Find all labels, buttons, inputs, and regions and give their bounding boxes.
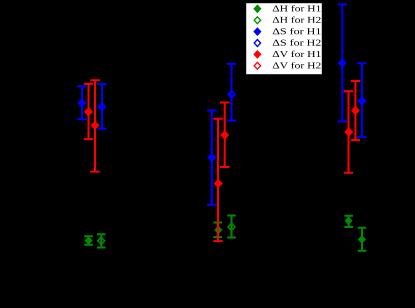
error bar ΔH H2 group2 bbox=[227, 216, 236, 238]
point ΔH H1 group1 bbox=[85, 236, 93, 245]
legend label ΔS for H2 bbox=[273, 39, 321, 45]
error bar ΔV H2 group2 bbox=[213, 119, 222, 241]
error bar ΔS H2 group2 bbox=[227, 64, 236, 121]
error bar ΔH H1 group1 bbox=[84, 236, 93, 244]
point ΔS H2 group1 bbox=[97, 102, 106, 111]
legend label ΔV for H1 bbox=[273, 51, 321, 57]
error bar ΔV H1 group3 bbox=[344, 91, 353, 173]
point ΔH H2 group2 (open) bbox=[228, 223, 235, 230]
error bar ΔH H2 group3 bbox=[358, 228, 367, 251]
point ΔS H1 group3 bbox=[338, 58, 347, 67]
error bar ΔS H1 group1 bbox=[77, 86, 86, 119]
point ΔH H2 group1 (open) bbox=[98, 237, 105, 244]
legend marker ΔV for H2 bbox=[254, 62, 260, 69]
error bar ΔV H1 group2 bbox=[220, 103, 229, 168]
legend marker ΔV for H1 bbox=[253, 50, 261, 59]
point ΔS H1 group1 bbox=[78, 98, 87, 107]
legend marker ΔS for H2 bbox=[254, 40, 260, 47]
point ΔS H2 group2 (open) bbox=[227, 90, 236, 99]
legend label ΔH for H2 bbox=[273, 16, 321, 22]
error bar ΔV H2 group3 bbox=[351, 81, 360, 140]
error bar ΔS H2 group3 bbox=[357, 63, 366, 137]
hole in open diamond ΔS H2 group2 bbox=[232, 94, 234, 96]
point ΔV H2 group3 bbox=[351, 106, 360, 115]
point ΔV H1 group2 bbox=[220, 130, 229, 139]
legend marker ΔH for H2 bbox=[254, 17, 260, 24]
legend marker ΔS for H1 bbox=[253, 27, 261, 36]
error bar ΔS H1 group2 bbox=[207, 111, 216, 205]
error bar ΔH H1 group2 bbox=[213, 223, 222, 238]
point ΔS H1 group2 bbox=[207, 153, 216, 162]
error bar ΔH H2 group1 bbox=[97, 234, 106, 247]
point ΔS H2 group3 bbox=[357, 96, 366, 105]
legend label ΔH for H1 bbox=[273, 5, 321, 11]
point ΔH H2 group3 bbox=[358, 235, 366, 244]
legend box bbox=[246, 3, 322, 74]
error bar ΔV H1 group1 bbox=[84, 84, 93, 139]
error bar ΔS H1 group3 bbox=[338, 4, 347, 121]
point ΔV H2 group2 bbox=[214, 179, 223, 188]
legend label ΔS for H1 bbox=[273, 28, 321, 34]
point ΔV H2 group1 bbox=[91, 121, 100, 130]
point ΔH H1 group3 bbox=[344, 216, 352, 225]
point ΔV H1 group1 bbox=[84, 107, 93, 116]
error bar ΔH H1 group3 bbox=[344, 216, 353, 227]
legend marker ΔH for H1 bbox=[253, 4, 261, 13]
point ΔH H1 group2 bbox=[214, 226, 222, 235]
error bar ΔV H2 group1 bbox=[90, 80, 99, 171]
error bar ΔS H2 group1 bbox=[97, 84, 106, 129]
point ΔV H1 group3 bbox=[344, 127, 353, 136]
legend label ΔV for H2 bbox=[273, 62, 321, 68]
